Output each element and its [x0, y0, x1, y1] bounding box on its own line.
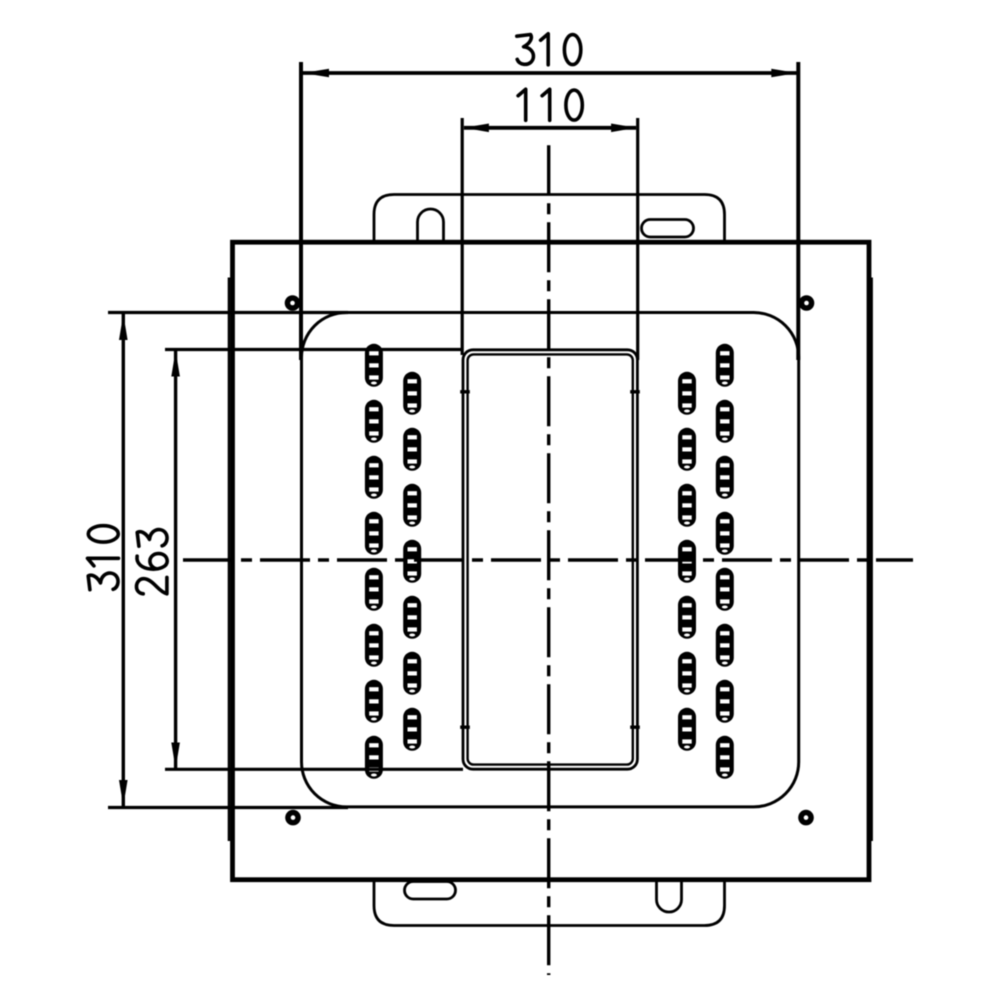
dim 310 left: extension line top — [108, 311, 348, 314]
dim 110: extension line left — [461, 118, 464, 355]
dim 310 top: extension line left — [299, 62, 303, 360]
dim 310 top: dimension line — [303, 71, 797, 75]
dim 310 left: text (rotated) — [88, 526, 119, 590]
right side flange line — [870, 278, 873, 842]
dim 310 left: extension line bottom — [108, 806, 348, 809]
central boss outer rect — [463, 350, 637, 769]
horizontal center line — [183, 558, 913, 561]
bottom bracket U-slot hole — [657, 879, 682, 912]
left side flange line — [228, 278, 231, 842]
vent slot column D (right outer, 8 slots) — [716, 344, 734, 779]
dim 263: top arrow — [171, 351, 180, 377]
top bracket U-slot hole — [418, 209, 444, 241]
bottom bracket stadium hole — [405, 882, 456, 900]
dim 263: text (rotated) — [136, 530, 167, 594]
latch tick marks on central boss edges — [460, 390, 470, 393]
vent slot column C (right inner, 7 slots) — [678, 372, 696, 751]
central boss inner rect — [468, 354, 633, 764]
dim 263: dimension line — [174, 351, 177, 769]
dim 110: extension line right — [636, 118, 639, 360]
top bracket stadium hole — [642, 220, 694, 238]
screw hole bottom-left — [285, 810, 301, 826]
screw hole top-right — [799, 295, 815, 311]
dim 310 top: text — [517, 34, 581, 65]
dim 110: left arrow — [464, 124, 489, 133]
dim 110: text — [518, 89, 582, 120]
vent slot column A (left outer, 8 slots) — [365, 344, 383, 779]
dim 310 top: right arrow — [771, 69, 797, 78]
dim 310 left: dimension line — [122, 314, 125, 806]
inner plate 310x310 rounded — [302, 313, 799, 807]
top mounting bracket — [374, 195, 725, 243]
dim 263: extension line bottom — [165, 768, 463, 771]
dim 110: dimension line — [464, 126, 636, 130]
screw hole top-left — [285, 295, 301, 311]
dim 263: extension line top — [165, 348, 463, 351]
dim 310 top: extension line right — [796, 62, 800, 360]
dim 263: bottom arrow — [171, 743, 180, 769]
dim 110: right arrow — [611, 124, 636, 133]
screw hole bottom-right — [798, 810, 814, 826]
outer housing square — [233, 242, 870, 880]
dim 310 left: bottom arrow — [119, 780, 128, 806]
bottom mounting bracket — [374, 878, 725, 926]
dim 310 left: top arrow — [119, 314, 128, 340]
vertical center line — [547, 145, 550, 975]
dim 310 top: left arrow — [303, 69, 329, 78]
vent slot column B (left inner, 7 slots) — [403, 372, 421, 751]
